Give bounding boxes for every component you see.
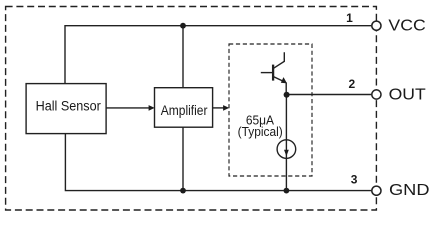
wire amplifier to GND rail [182,127,184,190]
svg-text:3: 3 [351,173,358,187]
svg-text:OUT: OUT [389,85,426,103]
svg-text:GND: GND [389,180,429,199]
Hall Sensor block [26,84,106,134]
transistor Q1 emitter [274,77,285,82]
pin 3 terminal circle [372,186,381,195]
arrowhead into amplifier [149,105,155,111]
device outline (outer dashed boundary) [6,7,377,211]
svg-text:2: 2 [348,77,355,91]
arrowhead into output stage [223,105,229,111]
wire through current source to GND [285,95,287,191]
wire VCC rail [65,26,371,84]
current source I1 wire through [285,140,287,159]
transistor Q1 base bar [272,65,274,81]
transistor Q1 collector [274,52,285,68]
wire GND rail [65,134,371,191]
node junction current source/GND [284,188,290,194]
node junction OUT [284,92,290,98]
svg-text:VCC: VCC [388,16,425,34]
svg-text:Hall Sensor: Hall Sensor [36,98,102,114]
transistor Q1 base lead [261,72,273,74]
current source I1 arrowhead [284,150,289,156]
wire OUT line [286,94,371,96]
Amplifier block [155,88,213,128]
transistor Q1 emitter lead down [285,82,287,94]
pin 1 terminal circle [372,21,381,30]
node junction amplifier/GND [180,188,186,194]
pin 2 terminal circle [372,90,381,99]
wire amplifier to output stage [213,107,225,109]
wire hall sensor to amplifier [106,107,150,109]
output stage dashed box [229,44,312,176]
svg-text:Amplifier: Amplifier [161,102,208,118]
current source I1 circle [277,140,296,159]
node junction on VCC rail [180,23,186,29]
svg-text:(Typical): (Typical) [238,124,283,139]
wire amplifier to VCC rail [182,26,184,88]
svg-text:1: 1 [346,11,353,25]
transistor Q1 emitter arrowhead [281,77,287,83]
